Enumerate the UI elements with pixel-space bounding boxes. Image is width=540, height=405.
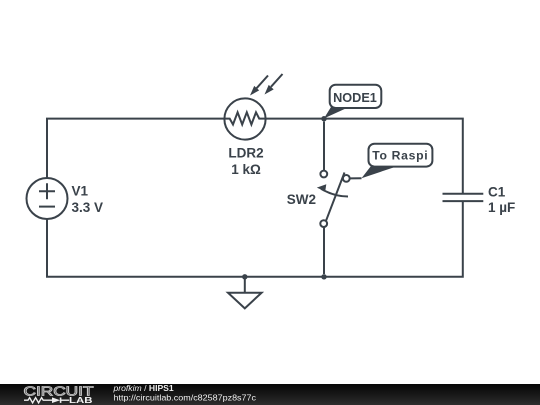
svg-text:NODE1: NODE1 — [333, 91, 377, 105]
svg-text:1 kΩ: 1 kΩ — [231, 162, 261, 177]
ground — [228, 277, 262, 309]
value label 3.3 V — [72, 200, 104, 215]
switch arc arrowhead — [317, 184, 327, 191]
switch SW2 — [320, 171, 349, 227]
svg-text:To Raspi: To Raspi — [372, 148, 428, 162]
svg-text:LDR2: LDR2 — [228, 146, 263, 161]
svg-text:1 µF: 1 µF — [488, 200, 515, 215]
node junction dot at ground — [242, 274, 247, 279]
photoresistor LDR2 — [224, 98, 265, 139]
value label 1 kOhm — [231, 162, 261, 177]
value label 1 uF — [488, 200, 515, 215]
capacitor C1 — [443, 194, 484, 201]
svg-text:V1: V1 — [72, 184, 89, 199]
CircuitLab logo wordmark CIRCUIT — [24, 383, 94, 398]
flag To Raspi pointer — [362, 166, 399, 178]
voltage source V1 — [27, 178, 68, 219]
node dot NODE1 junction — [321, 116, 326, 121]
wire throw terminal to flag — [350, 177, 362, 179]
footer url text — [114, 392, 257, 402]
CircuitLab logo diode triangle — [52, 397, 60, 403]
label SW2 — [287, 192, 316, 207]
flag NODE1 box — [330, 85, 382, 108]
wire switch bottom terminal to bottom rail — [323, 227, 325, 274]
svg-text:LAB: LAB — [69, 396, 93, 405]
wire from LDR2 right to C1 top — [266, 119, 463, 194]
LDR2 light arrow 1 — [250, 76, 268, 96]
node junction dot at switch bottom rail — [321, 274, 326, 279]
bottom rail wire — [47, 201, 463, 277]
svg-text:C1: C1 — [488, 185, 506, 200]
CircuitLab logo resistor-diode glyph — [24, 398, 69, 403]
flag To Raspi box — [369, 144, 433, 167]
LDR2 light arrow 2 — [265, 74, 283, 95]
wire NODE1 down to switch top terminal — [323, 122, 325, 172]
flag NODE1 pointer — [324, 107, 349, 118]
svg-text:SW2: SW2 — [287, 192, 316, 207]
wire from V1 top to LDR2 left — [47, 119, 225, 178]
svg-text:3.3 V: 3.3 V — [72, 200, 104, 215]
svg-text:http://circuitlab.com/c82587pz: http://circuitlab.com/c82587pz8s77c — [114, 392, 257, 402]
footer title profkim / HIPS1 — [113, 383, 174, 393]
label V1 — [72, 184, 89, 199]
footer bar — [0, 384, 540, 405]
label LDR2 — [228, 146, 263, 161]
label C1 — [488, 185, 506, 200]
CircuitLab logo LAB — [69, 396, 93, 405]
